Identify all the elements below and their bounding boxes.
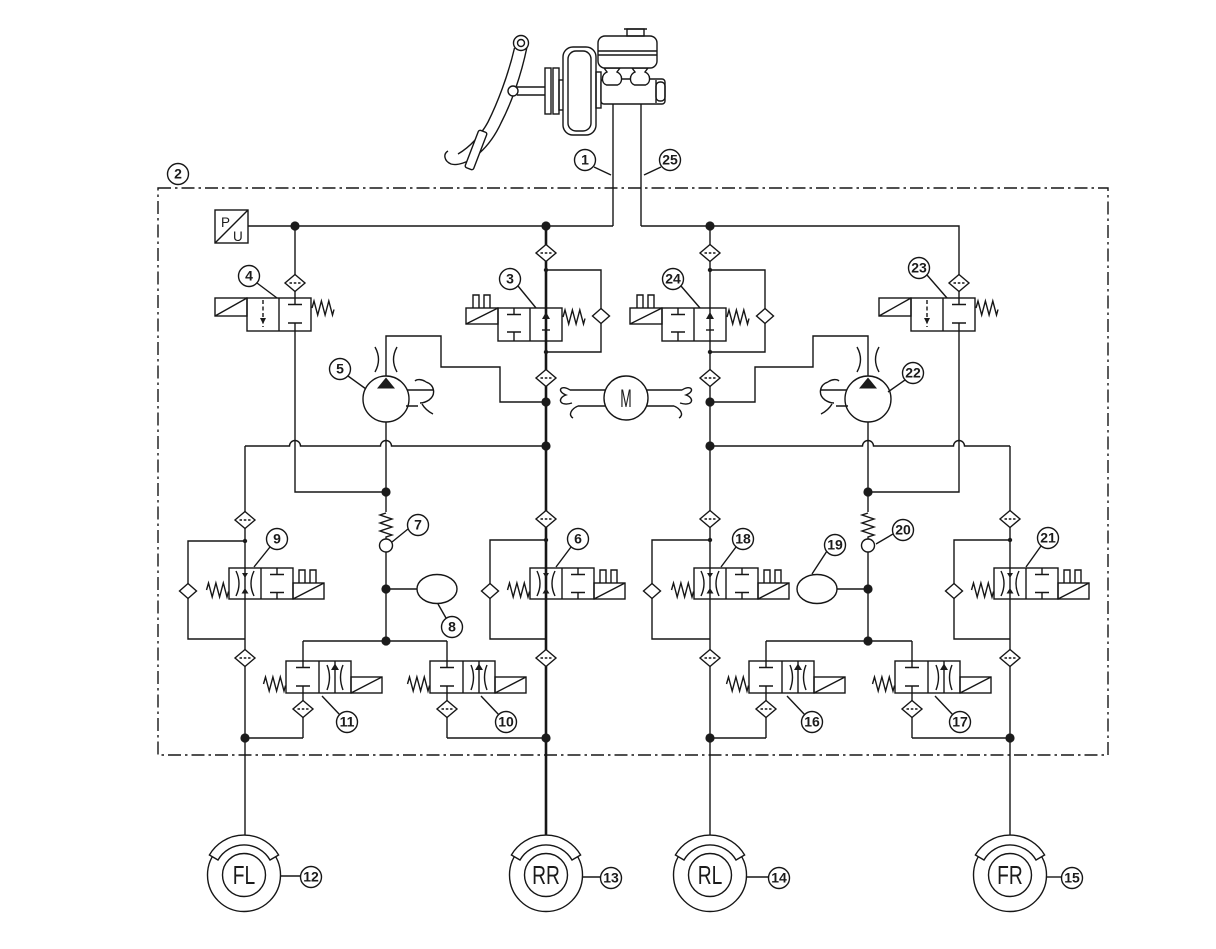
svg-text:22: 22: [905, 365, 921, 381]
node accumulator 8: [381, 584, 390, 593]
node left bus / valve4: [290, 221, 299, 230]
callout 10: [481, 696, 517, 733]
wire valve10 bottom port: [446, 693, 448, 738]
wire bypass loop valve 18: [652, 540, 710, 639]
node FL wheel line: [240, 733, 249, 742]
callout 21: [1026, 528, 1059, 568]
pushrod: [517, 87, 545, 95]
svg-text:7: 7: [414, 517, 422, 533]
wire outlet manifold left: [303, 640, 447, 642]
callout 19: [812, 535, 846, 575]
node valve4 output / pump5 line: [381, 487, 390, 496]
node left bus / main RR: [541, 221, 550, 230]
wire valve11 bottom port: [302, 693, 304, 738]
solenoid valve 23 pilot: [879, 298, 998, 331]
reservoir cap: [627, 29, 644, 36]
callout 22: [888, 363, 924, 393]
filter below valve18: [700, 650, 720, 667]
wire valve17 top port: [911, 641, 913, 661]
svg-text:24: 24: [665, 271, 681, 287]
svg-text:15: 15: [1064, 870, 1080, 886]
HCU unit dash-dot border box 2: [158, 188, 1108, 755]
check valve of valve24 bypass: [757, 309, 774, 324]
wire FR return header: [912, 737, 1010, 739]
svg-text:10: 10: [498, 714, 514, 730]
node secondary bus / main RR: [541, 441, 550, 450]
motor M: [560, 376, 691, 420]
booster input plates: [545, 68, 551, 114]
svg-text:13: 13: [603, 870, 619, 886]
solenoid valve 10 outlet RR: [408, 661, 527, 693]
filter below valve6: [536, 650, 556, 667]
svg-text:U: U: [233, 229, 243, 244]
wire RL return header: [710, 737, 766, 739]
callout 4: [239, 266, 278, 299]
node valve24 bypass bottom: [708, 350, 712, 354]
svg-text:8: 8: [448, 619, 456, 635]
check valve of valve3 bypass: [593, 309, 610, 324]
solenoid valve 6 inlet RR: [508, 568, 626, 599]
reservoir feed port left: [602, 68, 621, 85]
svg-text:11: 11: [340, 714, 355, 730]
filter at valve3 inlet: [536, 245, 556, 262]
solenoid valve 4 pilot: [215, 298, 334, 331]
filter below valve24: [700, 370, 720, 387]
wire bypass loop valve 9: [188, 541, 245, 639]
filter below valve10: [437, 701, 457, 718]
wire outlet manifold right: [766, 640, 912, 642]
wire accumulator 8 link: [386, 588, 420, 590]
svg-text:6: 6: [574, 531, 582, 547]
node secondary bus / main RL: [705, 441, 714, 450]
wire pump5 outlet: [386, 336, 546, 402]
solenoid valve 3 master: [466, 295, 585, 341]
node accumulator 19: [863, 584, 872, 593]
node valve21 bypass top: [1008, 538, 1012, 542]
svg-text:M: M: [620, 386, 631, 413]
callout 20: [876, 520, 914, 545]
reservoir feed port right: [630, 68, 649, 85]
pushrod joint: [508, 86, 518, 96]
svg-text:5: 5: [336, 361, 344, 377]
callout 3: [500, 269, 537, 309]
wire valve10 top port: [446, 641, 448, 661]
callout 1: [575, 150, 612, 176]
wheel FL: [208, 835, 281, 911]
solenoid valve 9 inlet FL: [207, 568, 325, 599]
wire left secondary bus with crossing hops: [245, 441, 546, 447]
filter below valve9: [235, 650, 255, 667]
filter at valve4 inlet: [285, 275, 305, 292]
callout 6: [556, 529, 589, 568]
wire valve23 output to pump line: [868, 331, 959, 492]
callout 7: [392, 515, 429, 543]
solenoid valve 21 inlet FR: [972, 568, 1090, 599]
filter above valve21: [1000, 511, 1020, 528]
wire main line RR circuit (thick): [545, 226, 548, 839]
solenoid valve 24 master: [630, 295, 749, 341]
wire bypass loop valve 3: [546, 270, 601, 352]
wire main line RL circuit: [709, 226, 711, 839]
wire pump22 return line lower: [867, 551, 869, 641]
filter below valve21: [1000, 650, 1020, 667]
wire bypass loop valve 24: [710, 270, 765, 352]
svg-text:1: 1: [581, 152, 589, 168]
filter below valve3: [536, 370, 556, 387]
wire FL branch line: [244, 446, 246, 839]
callout 12: [281, 867, 322, 888]
wheel RR: [510, 835, 583, 911]
filter below valve17: [902, 701, 922, 718]
wire right supply bus: [641, 226, 959, 275]
vacuum booster: [563, 47, 596, 135]
svg-text:FL: FL: [233, 860, 255, 890]
wire right secondary bus with crossing hops: [710, 441, 1010, 447]
callout 8: [438, 604, 463, 638]
node right bus / main RL: [705, 221, 714, 230]
svg-text:9: 9: [273, 531, 281, 547]
wire from master cylinder primary port down: [612, 104, 614, 226]
node valve23 output / pump22 line: [863, 487, 872, 496]
svg-text:17: 17: [952, 714, 968, 730]
svg-text:21: 21: [1040, 530, 1056, 546]
filter at valve23 inlet: [949, 275, 969, 292]
wire accumulator 19 link: [834, 588, 868, 590]
callout 17: [935, 696, 971, 733]
callout 16: [787, 696, 823, 733]
node valve18 bypass top: [708, 538, 712, 542]
callout 2: [168, 164, 189, 185]
svg-text:18: 18: [735, 531, 751, 547]
wire pump22 suction down: [867, 421, 869, 512]
wire valve16 top port: [765, 641, 767, 661]
accumulator 8: [417, 575, 457, 604]
solenoid valve 18 inlet RL: [672, 568, 790, 599]
master cylinder body: [601, 79, 665, 104]
callout 23: [909, 258, 948, 299]
wire pump22 outlet: [710, 336, 868, 402]
svg-text:FR: FR: [997, 860, 1023, 890]
wire left supply bus: [248, 225, 613, 227]
node RR wheel line: [541, 733, 550, 742]
wheel RL: [674, 835, 747, 911]
callout 9: [254, 529, 288, 568]
accumulator 19: [797, 575, 837, 604]
filter below valve16: [756, 701, 776, 718]
node pump22 outlet / main RL: [705, 397, 714, 406]
svg-text:16: 16: [804, 714, 820, 730]
node valve3 bypass bottom: [544, 350, 548, 354]
brake fluid reservoir: [598, 36, 657, 68]
wire pump5 suction down: [385, 421, 387, 512]
node valve9 bypass top: [243, 539, 247, 543]
wheel FR: [974, 835, 1047, 911]
wire valve17 bottom port: [911, 693, 913, 738]
check valve of valve18 bypass: [644, 584, 661, 599]
svg-text:25: 25: [662, 152, 678, 168]
pressure switch: [215, 210, 248, 244]
svg-text:P: P: [221, 215, 230, 230]
svg-text:RL: RL: [698, 860, 723, 890]
svg-text:14: 14: [771, 870, 787, 886]
svg-text:2: 2: [174, 166, 182, 182]
wire RR return header: [447, 737, 546, 739]
pump 22: [820, 347, 891, 422]
callout 25: [644, 150, 681, 176]
node valve6 bypass top: [544, 538, 548, 542]
svg-text:19: 19: [827, 537, 843, 553]
relief valve 20: [862, 513, 875, 552]
callout 13: [583, 868, 622, 889]
node valve3 bypass top: [544, 268, 548, 272]
solenoid valve 16 outlet RL: [727, 661, 846, 693]
filter above valve18: [700, 511, 720, 528]
wire valve16 bottom port: [765, 693, 767, 738]
brake pedal pivot: [514, 36, 529, 51]
wire from master cylinder secondary port down: [640, 104, 642, 226]
solenoid valve 17 outlet FR: [873, 661, 992, 693]
svg-text:3: 3: [506, 271, 514, 287]
node pump22 return manifold: [863, 636, 872, 645]
brake pedal arm: [445, 47, 527, 165]
wire bypass loop valve 6: [490, 540, 546, 639]
wire valve4 branch down: [294, 226, 296, 298]
node pump5 return manifold: [381, 636, 390, 645]
filter above valve9: [235, 512, 255, 529]
svg-text:20: 20: [895, 522, 911, 538]
filter above valve6: [536, 511, 556, 528]
wire FR branch line: [1009, 446, 1011, 839]
pump 5: [363, 347, 434, 422]
node valve24 bypass top: [708, 268, 712, 272]
svg-text:4: 4: [245, 268, 253, 284]
brake pedal pad: [465, 130, 488, 171]
wire valve11 top port: [302, 641, 304, 661]
svg-text:12: 12: [303, 869, 319, 885]
solenoid valve 11 outlet FL: [264, 661, 383, 693]
callout 11: [322, 696, 358, 733]
wire FL return header: [245, 737, 303, 739]
check valve of valve6 bypass: [482, 584, 499, 599]
wire pump5 return line lower: [385, 551, 387, 641]
wire bypass loop valve 21: [954, 540, 1010, 639]
booster to master cylinder flange: [596, 72, 601, 108]
wire valve23 branch down: [958, 291, 960, 298]
filter below valve11: [293, 701, 313, 718]
callout 15: [1047, 868, 1083, 889]
callout 18: [721, 529, 754, 568]
svg-text:23: 23: [911, 260, 927, 276]
filter at valve24 inlet: [700, 245, 720, 262]
svg-text:RR: RR: [532, 860, 560, 890]
node FR wheel line: [1005, 733, 1014, 742]
callout 14: [747, 868, 790, 889]
wire valve4 output to pump line: [295, 331, 386, 492]
callouts: [168, 150, 1083, 889]
relief valve 7: [380, 513, 393, 552]
check valve of valve9 bypass: [180, 584, 197, 599]
node pump5 outlet / main RR: [541, 397, 550, 406]
callout 5: [330, 359, 367, 390]
callout 24: [663, 269, 701, 309]
check valve of valve21 bypass: [946, 584, 963, 599]
node RL wheel line: [705, 733, 714, 742]
